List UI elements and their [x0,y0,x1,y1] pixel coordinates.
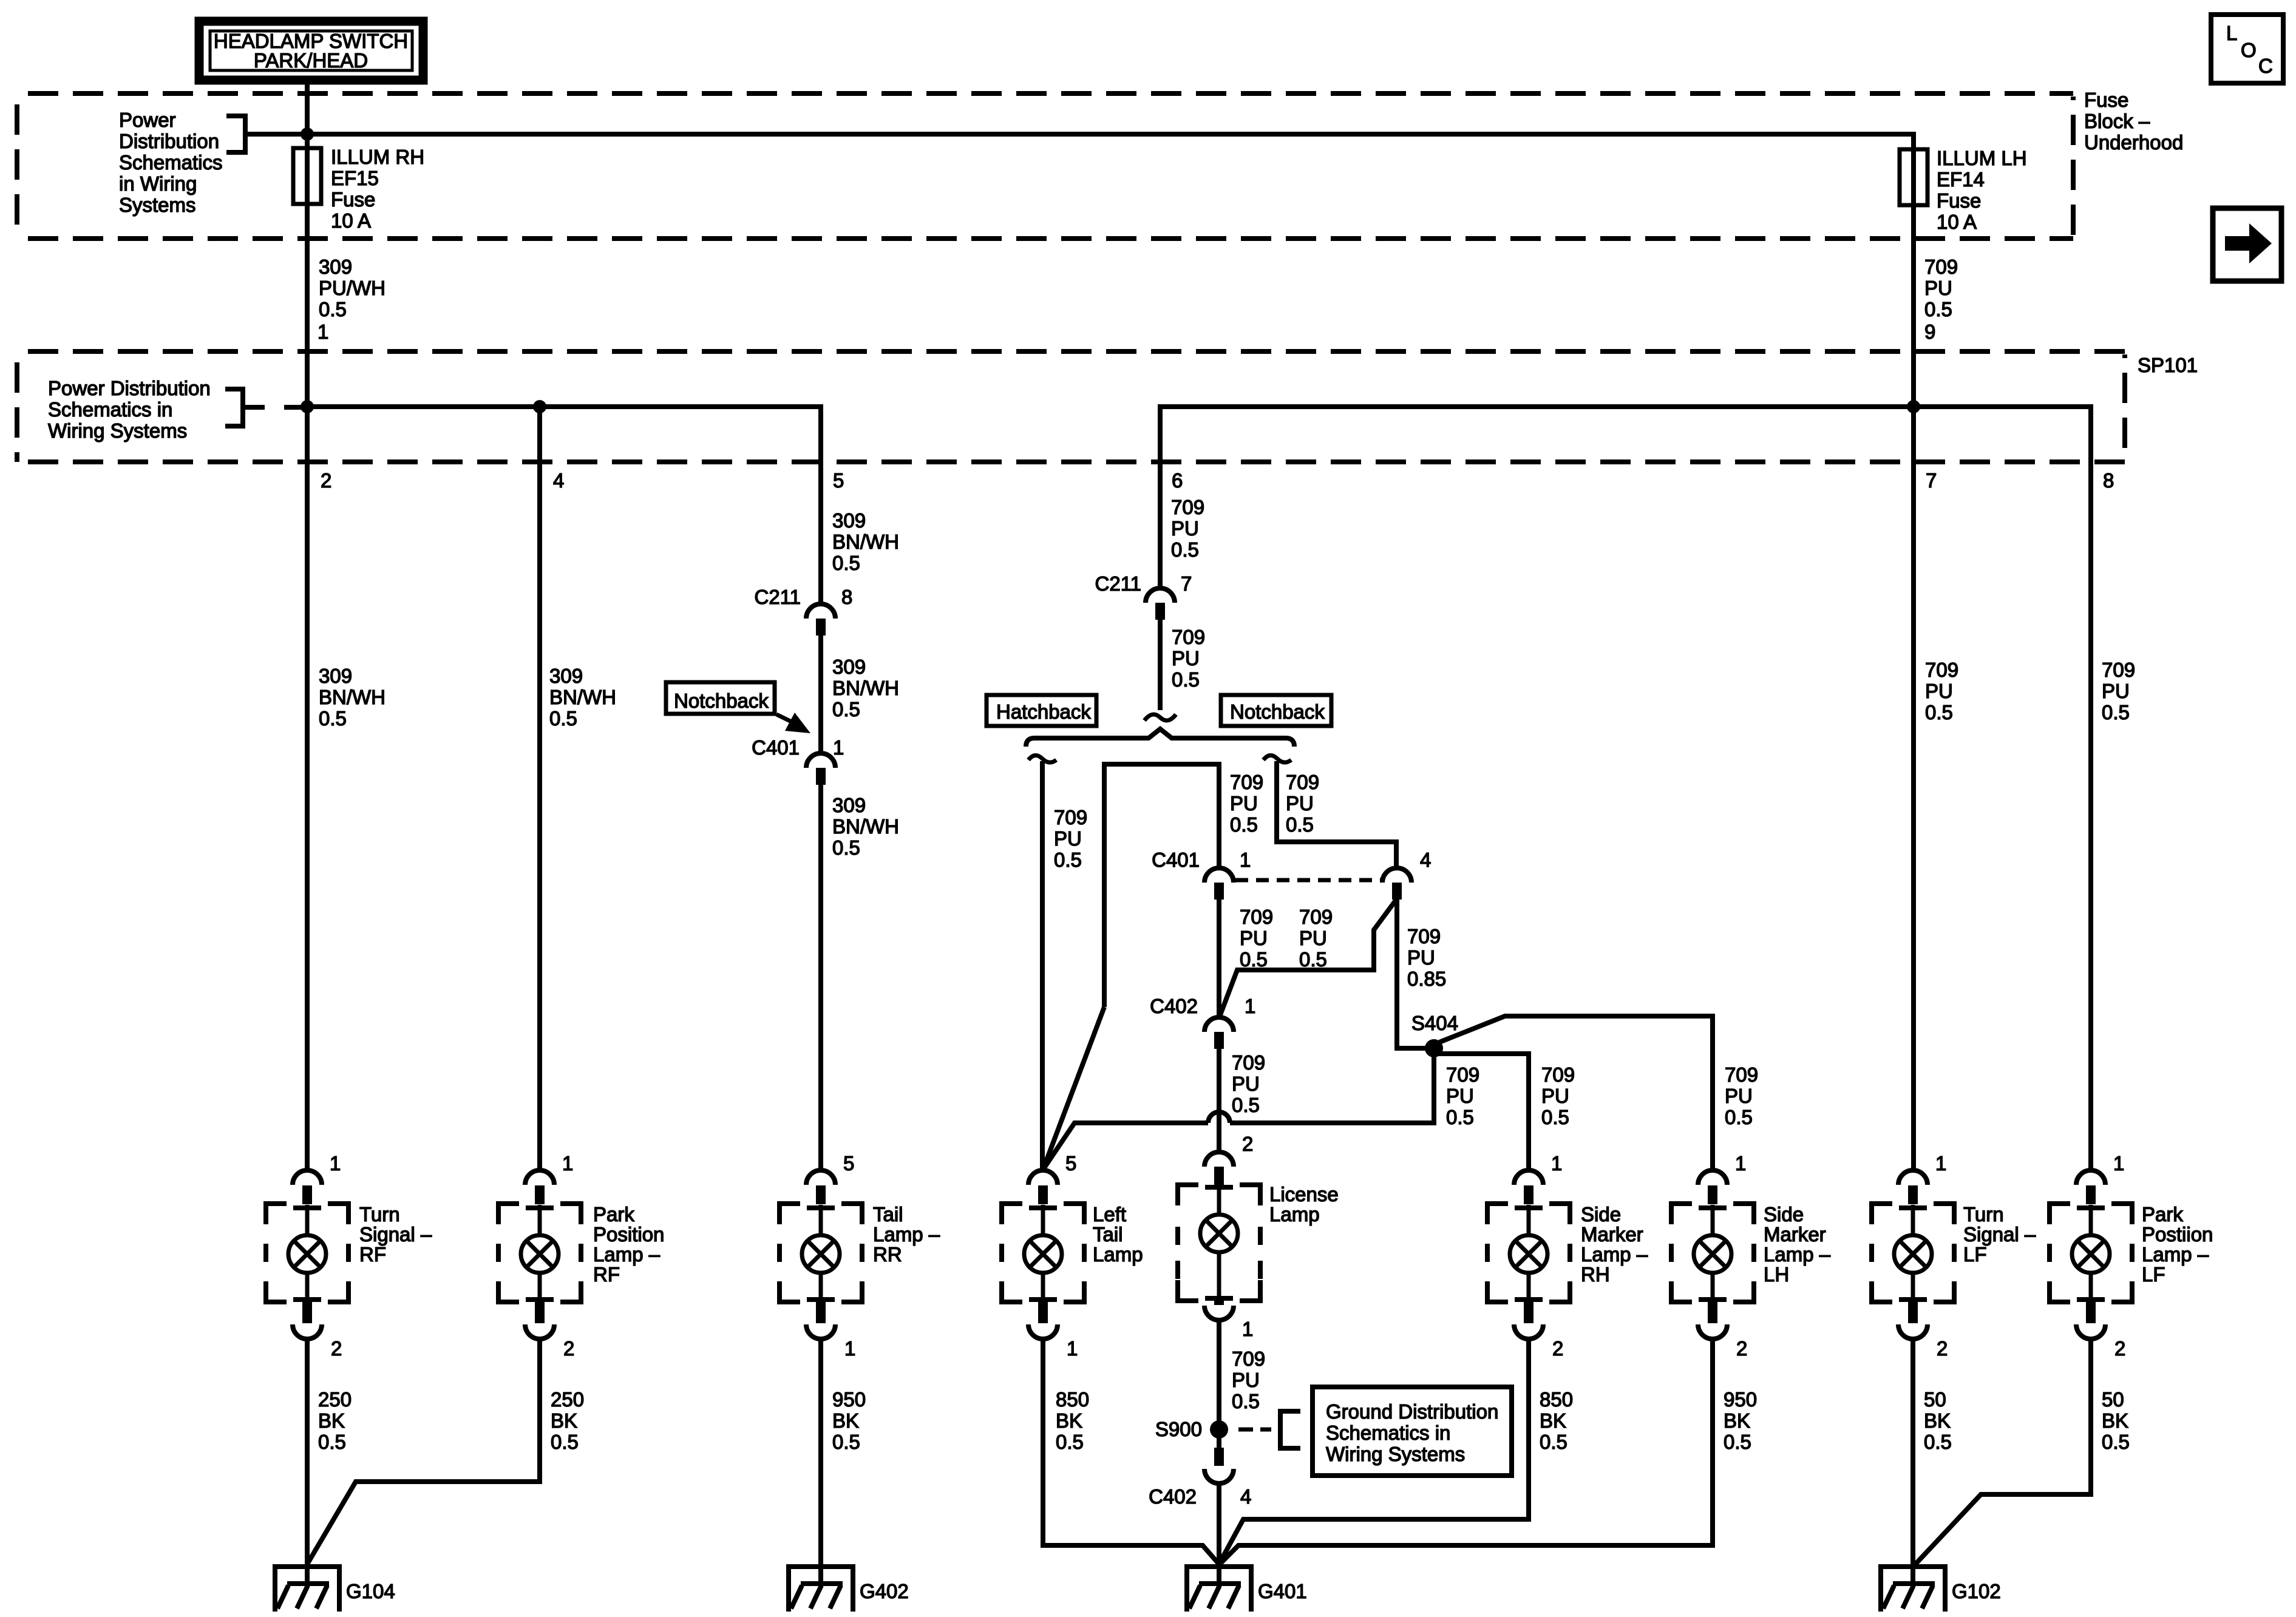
wire label 250 BK 0.5 (Turn RF) [318,1388,352,1453]
svg-text:BK: BK [1056,1409,1082,1432]
fuse EF14 [1900,149,1927,205]
label ILLUM RH EF15 Fuse 10 A [331,146,424,232]
svg-text:0.5: 0.5 [549,707,577,730]
svg-text:BK: BK [551,1409,577,1432]
svg-text:309: 309 [832,656,866,678]
svg-text:PU: PU [1725,1085,1753,1107]
wire label 709 PU 0.5 (to SM RH) [1541,1063,1575,1128]
bracket for note 2 [225,389,307,426]
svg-text:C401: C401 [1152,849,1200,871]
label Left Tail Lamp [1093,1203,1143,1266]
svg-text:C: C [2258,55,2273,77]
svg-text:Hatchback: Hatchback [996,700,1091,723]
svg-text:Turn: Turn [1963,1203,2004,1225]
svg-text:PU: PU [1446,1085,1474,1107]
svg-text:BK: BK [1924,1409,1951,1432]
svg-text:850: 850 [1056,1388,1089,1411]
svg-text:Park: Park [593,1203,634,1225]
svg-text:309: 309 [549,665,583,687]
svg-text:250: 250 [551,1388,584,1411]
label Turn Signal - LF [1963,1203,2036,1266]
label Tail Lamp - RR [873,1203,940,1266]
svg-text:709: 709 [1172,626,1205,648]
svg-text:2: 2 [2114,1337,2125,1360]
svg-text:LF: LF [2142,1263,2165,1286]
label License Lamp [1269,1183,1339,1225]
wire notchback branch down then right to C401-4 [1277,761,1396,869]
svg-text:0.5: 0.5 [1171,538,1199,561]
svg-text:850: 850 [1540,1388,1573,1411]
lamp Side Marker Lamp - LH [1671,1170,1754,1339]
wire SM RH to G401 [1220,1340,1529,1562]
svg-text:709: 709 [1232,1347,1265,1370]
svg-text:5: 5 [1065,1152,1076,1175]
svg-text:G402: G402 [860,1580,909,1602]
node junction at (506,221) [301,127,314,141]
svg-text:C401: C401 [752,736,800,759]
label ILLUM LH EF14 Fuse 10 A [1937,147,2027,233]
svg-text:S900: S900 [1155,1418,1202,1440]
svg-text:0.5: 0.5 [2102,701,2130,724]
wire 6 below C211-7 [1158,620,1163,710]
ground G402 [786,1564,855,1612]
wire 7 down from SP101 [1911,407,1916,1170]
svg-text:1: 1 [1067,1337,1078,1360]
svg-text:0.5: 0.5 [832,836,860,859]
wire C402-4 to G401 [1217,1483,1221,1564]
svg-text:Fuse: Fuse [2084,89,2128,111]
svg-text:709: 709 [1725,1063,1758,1086]
svg-text:C402: C402 [1149,1485,1197,1508]
svg-text:Tail: Tail [873,1203,903,1225]
svg-text:PU: PU [1232,1369,1260,1391]
svg-text:2: 2 [563,1337,574,1360]
note: Fuse Block - Underhood [2084,89,2183,154]
svg-text:PU: PU [1232,1073,1260,1095]
connector C402 pin 4 [1149,1448,1251,1508]
svg-text:License: License [1269,1183,1339,1205]
svg-text:Lamp –: Lamp – [593,1243,661,1266]
svg-text:709: 709 [1232,1051,1265,1074]
svg-text:7: 7 [1926,469,1937,492]
wire label 709 PU 0.5 (circuit 709 right) [1924,256,1958,320]
svg-text:BK: BK [2102,1409,2128,1432]
svg-text:9: 9 [1924,320,1935,343]
svg-text:0.85: 0.85 [1407,968,1446,990]
splice S404 [1425,1039,1443,1057]
svg-text:ILLUM RH: ILLUM RH [331,146,424,168]
svg-text:1: 1 [1551,1152,1562,1175]
svg-text:Lamp –: Lamp – [873,1223,940,1246]
wire Tail RR to G402 [818,1340,823,1564]
lamp License Lamp (custom taller) [1178,1184,1260,1320]
wire label 709 PU 0.5 (license lower) [1232,1051,1265,1116]
svg-text:PU: PU [1240,927,1268,949]
svg-text:C402: C402 [1150,995,1198,1017]
svg-text:C211: C211 [1095,572,1141,595]
svg-text:0.5: 0.5 [832,1431,860,1453]
svg-text:2: 2 [1937,1337,1948,1360]
svg-text:709: 709 [1240,906,1273,928]
svg-text:PU: PU [2102,680,2130,702]
ground G104 [273,1564,342,1612]
svg-text:1: 1 [2113,1152,2124,1175]
svg-text:1: 1 [844,1337,855,1360]
wire label 709 PU 0.5 (S404 to left tail) [1446,1063,1479,1128]
wire label 50 BK 0.5 (Turn LF) [1924,1388,1952,1453]
diagonal from loop to left tail lamp pin [1043,1007,1104,1170]
svg-text:EF15: EF15 [331,167,379,189]
lamp Turn Signal - LF [1872,1170,1954,1339]
svg-text:Notchback: Notchback [674,690,769,712]
svg-text:0.5: 0.5 [1725,1106,1753,1128]
splice box SP101 dashed [17,351,2125,462]
svg-text:Side: Side [1764,1203,1804,1225]
svg-text:Park: Park [2142,1203,2183,1225]
node junction (506,670) [301,400,314,413]
wire label 250 BK 0.5 (Park RF) [551,1388,584,1453]
svg-text:S404: S404 [1411,1012,1458,1034]
svg-text:0.5: 0.5 [1232,1094,1260,1116]
svg-text:1: 1 [1735,1152,1746,1175]
svg-text:1: 1 [833,736,844,759]
svg-text:0.5: 0.5 [319,707,347,730]
svg-text:BK: BK [318,1409,345,1432]
connector C401 pin 1 (license) [1152,849,1251,900]
svg-text:Schematics in: Schematics in [1326,1422,1450,1444]
svg-text:Position: Position [593,1223,664,1246]
notchback branch hook [1263,755,1291,762]
lamp Left Tail Lamp [1002,1170,1084,1339]
wire 2 down from SP101 [305,407,310,1170]
wire Turn LF to G102 [1911,1340,1915,1564]
lamp Side Marker Lamp - RH [1487,1170,1570,1339]
switch S1 HEADLAMP SWITCH PARK/HEAD box [199,21,423,80]
svg-text:EF14: EF14 [1937,168,1985,191]
svg-text:Lamp –: Lamp – [2142,1243,2209,1266]
svg-text:0.5: 0.5 [2102,1431,2130,1453]
lamp Park Position Lamp - RF [498,1170,581,1339]
wire label 309 BN/WH 0.5 (wire 5 lower) [832,794,899,859]
wire label 309 BN/WH 0.5 (wire 5 mid) [832,656,899,720]
svg-text:10 A: 10 A [331,209,371,232]
svg-text:PU: PU [1054,827,1082,850]
svg-text:Power Distribution: Power Distribution [48,377,211,399]
svg-text:1: 1 [562,1152,573,1175]
svg-text:Schematics in: Schematics in [48,398,172,421]
wire S900 to C402-4 [1217,1438,1221,1448]
svg-text:Fuse: Fuse [331,188,375,211]
svg-text:Signal –: Signal – [359,1223,432,1246]
svg-text:709: 709 [1446,1063,1479,1086]
wire label 709 PU 0.5 (wire 6 below C211) [1172,626,1205,691]
svg-text:Lamp: Lamp [1269,1203,1320,1225]
wire 8 down to park lamp LF [2088,461,2093,1170]
svg-text:2: 2 [1242,1133,1253,1155]
wire 5 between C211 and C401 [818,636,823,753]
svg-text:709: 709 [1925,659,1958,681]
wire Park LF to G102 [1915,1340,2091,1564]
svg-text:BN/WH: BN/WH [319,686,385,708]
wire label 309 PU/WH 0.5 (circuit 309) [319,256,385,320]
wire label 309 BN/WH 0.5 (wire 2) [319,665,385,730]
lamp Park Postiion Lamp - LF [2050,1170,2132,1339]
ground G102 [1878,1564,1948,1612]
wire 4 down from SP101 [537,407,542,1170]
svg-text:ILLUM LH: ILLUM LH [1937,147,2027,169]
connector C211 pin 7 (wire 6) [1095,572,1192,620]
lamp Turn Signal - RF [266,1170,348,1339]
svg-text:Side: Side [1581,1203,1621,1225]
split brace (hatchback/notchback variants) [1026,729,1294,747]
wire 8 label 709 PU 0.5 [2102,659,2135,724]
svg-text:5: 5 [833,469,844,492]
svg-text:Lamp: Lamp [1093,1243,1143,1266]
svg-text:5: 5 [843,1152,854,1175]
svg-text:2: 2 [1552,1337,1563,1360]
svg-text:RF: RF [593,1263,620,1286]
svg-text:0.5: 0.5 [1924,298,1952,320]
svg-text:Marker: Marker [1581,1223,1643,1246]
svg-text:PARK/HEAD: PARK/HEAD [254,49,368,72]
bracket for note 1 [226,116,307,152]
svg-text:0.5: 0.5 [1540,1431,1567,1453]
svg-text:Lamp –: Lamp – [1764,1243,1831,1266]
wire label 709 PU 0.5 (to SM LH) [1725,1063,1758,1128]
svg-text:1: 1 [1240,849,1251,871]
lamp Tail Lamp - RR [779,1170,862,1339]
wire SP101 bus right segment y670 [1160,407,2091,588]
svg-text:PU: PU [1299,927,1327,949]
wire through EF15 down to box bottom [305,147,310,407]
wire label 709 PU 0.5 (license ground) [1232,1347,1265,1412]
svg-text:PU: PU [1924,277,1952,299]
wire SM LH to G401 [1221,1340,1713,1563]
svg-text:709: 709 [1230,771,1263,793]
svg-text:1: 1 [318,320,328,343]
svg-text:709: 709 [1541,1063,1575,1086]
wire Park RF to G104 [307,1340,540,1564]
svg-text:0.5: 0.5 [1240,948,1268,971]
svg-text:309: 309 [319,256,352,278]
svg-text:BK: BK [832,1409,859,1432]
svg-text:709: 709 [1171,496,1204,518]
svg-text:L: L [2226,22,2237,44]
svg-text:Ground Distribution: Ground Distribution [1326,1400,1498,1423]
svg-text:4: 4 [553,469,564,492]
svg-text:G104: G104 [346,1580,395,1602]
wire S404 up-right to side marker LH [1439,1016,1713,1170]
wire label 850 BK 0.5 (SM RH) [1540,1388,1573,1453]
fuse block box (Power Distribution dashed box) [17,93,2073,239]
wire License / C402-4 chain [1217,1320,1221,1421]
svg-text:PU: PU [1286,792,1314,815]
svg-text:Systems: Systems [119,194,196,216]
hatchback license feed loop [1104,764,1219,1007]
connector C402 pin 2 (license lamp) [1204,1133,1253,1184]
svg-text:0.5: 0.5 [318,1431,346,1453]
svg-text:50: 50 [2102,1388,2124,1411]
svg-text:PU: PU [1407,946,1435,969]
svg-text:LH: LH [1764,1263,1789,1286]
svg-text:Block –: Block – [2084,110,2150,132]
hop over license wire [1208,1112,1230,1123]
label Turn Signal - RF [359,1203,432,1266]
svg-text:Schematics: Schematics [119,151,223,174]
svg-text:1: 1 [330,1152,341,1175]
wire label 950 BK 0.5 (SM LH) [1724,1388,1757,1453]
svg-text:0.5: 0.5 [832,552,860,574]
svg-text:Underhood: Underhood [2084,131,2183,154]
wire label 950 BK 0.5 (Tail RR) [832,1388,866,1453]
label Side Marker Lamp - RH [1581,1203,1648,1286]
svg-text:2: 2 [321,469,331,492]
svg-text:8: 8 [841,586,852,608]
svg-text:Lamp –: Lamp – [1581,1243,1648,1266]
svg-text:0.5: 0.5 [551,1431,579,1453]
svg-text:0.5: 0.5 [1446,1106,1474,1128]
svg-text:RR: RR [873,1243,902,1266]
svg-text:709: 709 [1054,806,1087,829]
svg-text:1: 1 [1245,995,1255,1017]
svg-text:0.5: 0.5 [319,298,347,320]
ground G401 [1184,1564,1254,1612]
svg-text:0.5: 0.5 [1724,1431,1751,1453]
wire label 709 PU 0.5 (wire 7) [1925,659,1958,724]
wire label 709 PU 0.5 (hatchback branch) [1054,806,1087,871]
license wire C402-1 to C402-2 [1217,1049,1221,1152]
svg-text:PU: PU [1171,517,1199,540]
node junction (3152,670) [1907,400,1920,413]
svg-text:0.5: 0.5 [1232,1390,1260,1412]
label Side Marker Lamp - LH [1764,1203,1831,1286]
svg-text:BN/WH: BN/WH [832,531,899,553]
wire S404 down then left to left tail lamp (with hop) [1230,1055,1434,1123]
wire Left Tail to G401 [1043,1340,1219,1564]
svg-text:BN/WH: BN/WH [832,815,899,838]
wire label 850 BK 0.5 (Left Tail) [1056,1388,1089,1453]
wire label 709 PU 0.85 [1407,925,1446,990]
svg-text:250: 250 [318,1388,352,1411]
svg-text:4: 4 [1240,1485,1251,1508]
wire 9 through EF14 down into SP101 [1911,149,1916,409]
svg-text:BN/WH: BN/WH [549,686,616,708]
connector C401 pin 4 [1382,849,1431,900]
break squiggle on wire 6 [1144,714,1176,720]
wire label 309 BN/WH 0.5 (wire 5 above C211) [832,509,899,574]
svg-text:G401: G401 [1258,1580,1307,1602]
svg-text:0.5: 0.5 [1172,668,1200,691]
svg-text:PU: PU [1541,1085,1569,1107]
svg-text:10 A: 10 A [1937,211,1977,233]
svg-text:0.5: 0.5 [1056,1431,1084,1453]
svg-text:309: 309 [832,794,866,816]
svg-text:Tail: Tail [1093,1223,1123,1246]
svg-text:PU: PU [1172,647,1200,670]
svg-text:309: 309 [319,665,352,687]
svg-text:Wiring Systems: Wiring Systems [48,419,187,442]
svg-text:709: 709 [2102,659,2135,681]
label Park Position Lamp - RF [593,1203,664,1286]
svg-text:BK: BK [1540,1409,1566,1432]
svg-text:PU/WH: PU/WH [319,277,385,299]
svg-text:Wiring Systems: Wiring Systems [1326,1443,1465,1465]
svg-text:0.5: 0.5 [1299,948,1327,971]
wire S404 right to side marker RH [1439,1054,1529,1170]
svg-text:8: 8 [2103,469,2114,492]
hatchback branch hook [1028,755,1056,762]
connector C211 pin 8 [755,586,853,636]
svg-text:PU: PU [1925,680,1953,702]
node junction (889,670) [533,400,546,413]
wire C401-4 down to S404 [1397,900,1428,1048]
wire from headlamp switch down (x506) [305,80,310,150]
svg-text:Notchback: Notchback [1230,700,1325,723]
note box Notchback (arrowed) [666,682,775,714]
arrow from Notchback box to wire [776,713,810,733]
svg-text:SP101: SP101 [2138,354,2198,376]
LOC box (page locator) [2211,15,2283,83]
wire C401-4 to C402-1 (notchback path) [1220,900,1396,1015]
wire horizontal feed y221 to EF14 [307,134,1914,152]
svg-text:Signal –: Signal – [1963,1223,2036,1246]
svg-text:0.5: 0.5 [1286,813,1314,836]
svg-text:Left: Left [1093,1203,1126,1225]
wire license C401-1 down to C402-1 [1217,900,1221,1018]
wire 5 from C401 down to tail lamp [818,785,823,1170]
note: Power Distribution Schematics in Wiring Systems (SP101) [48,377,211,442]
svg-text:4: 4 [1420,849,1431,871]
bracket to ground note [1280,1411,1300,1448]
svg-text:O: O [2241,39,2257,61]
svg-text:7: 7 [1181,572,1192,595]
wire 6 label 709 PU 0.5 (above C211-7) [1171,496,1204,561]
wire label 709 PU 0.5 (C401-4 branch) [1299,906,1333,971]
svg-text:0.5: 0.5 [1541,1106,1569,1128]
svg-text:in Wiring: in Wiring [119,172,197,195]
arrow box (continuation arrow) [2213,208,2281,281]
svg-text:Postiion: Postiion [2142,1223,2213,1246]
svg-text:BK: BK [1724,1409,1750,1432]
svg-text:PU: PU [1230,792,1258,815]
svg-text:709: 709 [1299,906,1333,928]
svg-text:0.5: 0.5 [1054,849,1082,871]
svg-text:950: 950 [832,1388,866,1411]
svg-text:709: 709 [1407,925,1441,947]
wire label 50 BK 0.5 (Park LF) [2102,1388,2130,1453]
fuse EF15 [293,148,321,204]
label Park Postiion Lamp - LF [2142,1203,2213,1286]
svg-text:0.5: 0.5 [1924,1431,1952,1453]
svg-text:RH: RH [1581,1263,1610,1286]
svg-text:C211: C211 [755,586,801,608]
svg-text:Power: Power [119,109,176,131]
dashed mating line C401-1 to C401-4 [1235,878,1381,883]
wire label 309 BN/WH 0.5 (wire 4) [549,665,616,730]
svg-text:1: 1 [1242,1318,1253,1340]
svg-text:309: 309 [832,509,866,532]
wire SP101 bus left segment y670 [307,407,821,604]
svg-text:709: 709 [1286,771,1319,793]
wire label 709 PU 0.5 (license upper) [1240,906,1273,971]
svg-text:0.5: 0.5 [1925,701,1953,724]
note box Notchback (right) [1221,695,1331,726]
connector C402 pin 1 [1150,995,1255,1049]
svg-text:6: 6 [1172,469,1183,492]
svg-text:BN/WH: BN/WH [832,677,899,699]
svg-text:50: 50 [1924,1388,1946,1411]
wire Turn RF to G104 [305,1340,310,1564]
